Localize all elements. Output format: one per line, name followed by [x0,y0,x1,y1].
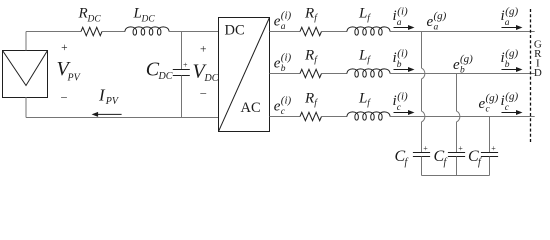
svg-text:R: R [304,90,314,106]
svg-text:DC: DC [141,15,156,25]
wire top rail PV to R_DC [26,31,81,33]
wire R_f to L_f phase a [322,31,348,33]
PV panel source [3,51,48,98]
label R_f phase c [304,90,318,108]
capacitor C_f phase b [448,153,465,176]
svg-text:L: L [358,5,367,21]
svg-text:e: e [274,14,281,30]
grid boundary dashed line [530,9,532,143]
wire capacitor bottom bus [422,175,490,177]
current arrow i_c^(g) [502,112,518,114]
svg-text:+: + [423,144,428,153]
label i_b^(i) [393,47,409,70]
wire converter to R_f phase c [270,116,301,118]
svg-text:(i): (i) [397,5,408,17]
label i_b^(g) [501,47,519,70]
label C_f b [434,148,448,168]
inductor L_DC [125,27,169,35]
svg-text:f: f [314,98,318,109]
wire L_f to grid phase c [390,116,535,118]
svg-text:R: R [78,6,88,22]
wire converter to R_f phase b [270,73,301,75]
svg-text:(g): (g) [460,53,473,65]
svg-text:b: b [281,64,286,74]
svg-text:e: e [479,96,486,112]
wire R_f to L_f phase c [322,116,348,118]
resistor R_f phase b [300,69,321,77]
node e_b^(g) [453,53,473,76]
svg-text:(g): (g) [505,47,518,59]
label C_DC [146,59,173,82]
label I_PV [98,85,120,107]
current arrow i_a^(i) [394,27,410,29]
label GRID [534,39,542,79]
wire converter to R_f phase a [270,31,301,33]
resistor R_f phase c [300,112,321,120]
label i_a^(g) [501,5,519,28]
svg-text:(i): (i) [281,52,292,64]
label L_DC [133,6,156,25]
svg-text:D: D [534,67,542,79]
node e_c^(i) [274,95,292,117]
svg-text:f: f [314,55,318,66]
svg-text:AC: AC [241,100,261,116]
capacitor C_DC [173,32,190,118]
svg-text:PV: PV [105,96,120,107]
svg-text:c: c [281,107,286,117]
svg-text:b: b [460,65,465,75]
svg-text:a: a [397,18,402,28]
wire C_f branch b (hops over phase c) [457,74,460,153]
svg-text:(g): (g) [505,5,518,17]
svg-text:R: R [304,5,314,21]
svg-text:(i): (i) [397,90,408,102]
svg-text:DC: DC [204,73,219,84]
svg-text:I: I [98,85,106,104]
svg-text:(i): (i) [281,95,292,107]
svg-text:DC: DC [225,23,245,39]
label R_DC [78,6,102,25]
label i_a^(i) [393,5,409,28]
label C_f a [395,148,409,168]
node e_a^(i) [274,10,292,32]
wire C_f branch c [489,117,491,153]
svg-text:(g): (g) [505,90,518,102]
svg-text:c: c [397,103,402,113]
svg-text:f: f [478,157,482,168]
svg-text:b: b [397,60,402,70]
svg-text:+: + [458,144,463,153]
label i_c^(i) [393,90,409,113]
inductor L_f phase c [347,112,390,120]
svg-text:b: b [505,60,510,70]
svg-text:c: c [486,104,491,114]
label L_f phase a [358,5,371,23]
svg-text:e: e [274,99,281,115]
svg-text:L: L [358,90,367,106]
current arrow i_b^(g) [502,69,518,71]
svg-text:e: e [427,14,434,30]
label R_f phase b [304,47,318,65]
svg-text:f: f [405,157,409,168]
label i_c^(g) [501,90,519,113]
inductor L_f phase a [347,27,390,35]
svg-text:e: e [274,56,281,72]
label R_f phase a [304,5,318,23]
node e_b^(i) [274,52,292,74]
svg-text:(g): (g) [434,10,447,22]
label L_f phase c [358,90,371,108]
svg-text:+: + [183,60,188,69]
svg-text:L: L [358,47,367,63]
label C_f c [468,148,482,168]
svg-text:R: R [304,47,314,63]
svg-text:+: + [200,44,207,56]
node e_c^(g) [479,92,499,115]
svg-text:(g): (g) [486,92,499,104]
node e_a^(g) [427,10,447,33]
wire L_DC to converter [169,31,219,33]
current arrow i_c^(i) [394,112,410,114]
wire R_DC to L_DC [102,31,125,33]
svg-text:e: e [453,57,460,73]
svg-text:a: a [281,22,286,32]
capacitor C_f phase a [413,153,430,176]
svg-text:f: f [314,13,318,24]
svg-text:+: + [491,144,496,153]
svg-text:(i): (i) [397,47,408,59]
svg-text:f: f [367,98,371,109]
DC/AC converter block U1 [219,18,270,132]
label L_f phase b [358,47,371,65]
svg-text:+: + [61,42,68,54]
wire R_f to L_f phase b [322,73,348,75]
svg-text:f: f [444,157,448,168]
current arrow i_b^(i) [394,69,410,71]
resistor R_f phase a [300,27,321,35]
svg-text:a: a [434,22,439,32]
label V_PV [57,58,82,84]
svg-text:L: L [133,6,142,22]
svg-text:–: – [60,91,67,103]
capacitor C_f phase c [481,153,498,176]
svg-text:c: c [505,103,510,113]
svg-text:DC: DC [87,15,102,25]
wire bottom rail [26,117,219,119]
wire C_f branch a (hops over phases b,c) [422,32,425,153]
svg-text:f: f [367,55,371,66]
svg-text:PV: PV [67,73,82,84]
wire L_f to grid phase b [390,73,535,75]
resistor R_DC [81,27,102,35]
inductor L_f phase b [347,69,390,77]
current arrow I_PV [97,113,122,115]
wire PV top stub [25,32,27,51]
svg-text:–: – [199,87,206,99]
wire PV bottom stub [25,97,27,118]
svg-text:DC: DC [158,71,173,82]
current arrow i_a^(g) [502,27,518,29]
wire L_f to grid phase a [390,31,535,33]
label V_DC [193,61,219,84]
svg-text:a: a [505,18,510,28]
svg-text:(i): (i) [281,10,292,22]
svg-text:f: f [367,13,371,24]
